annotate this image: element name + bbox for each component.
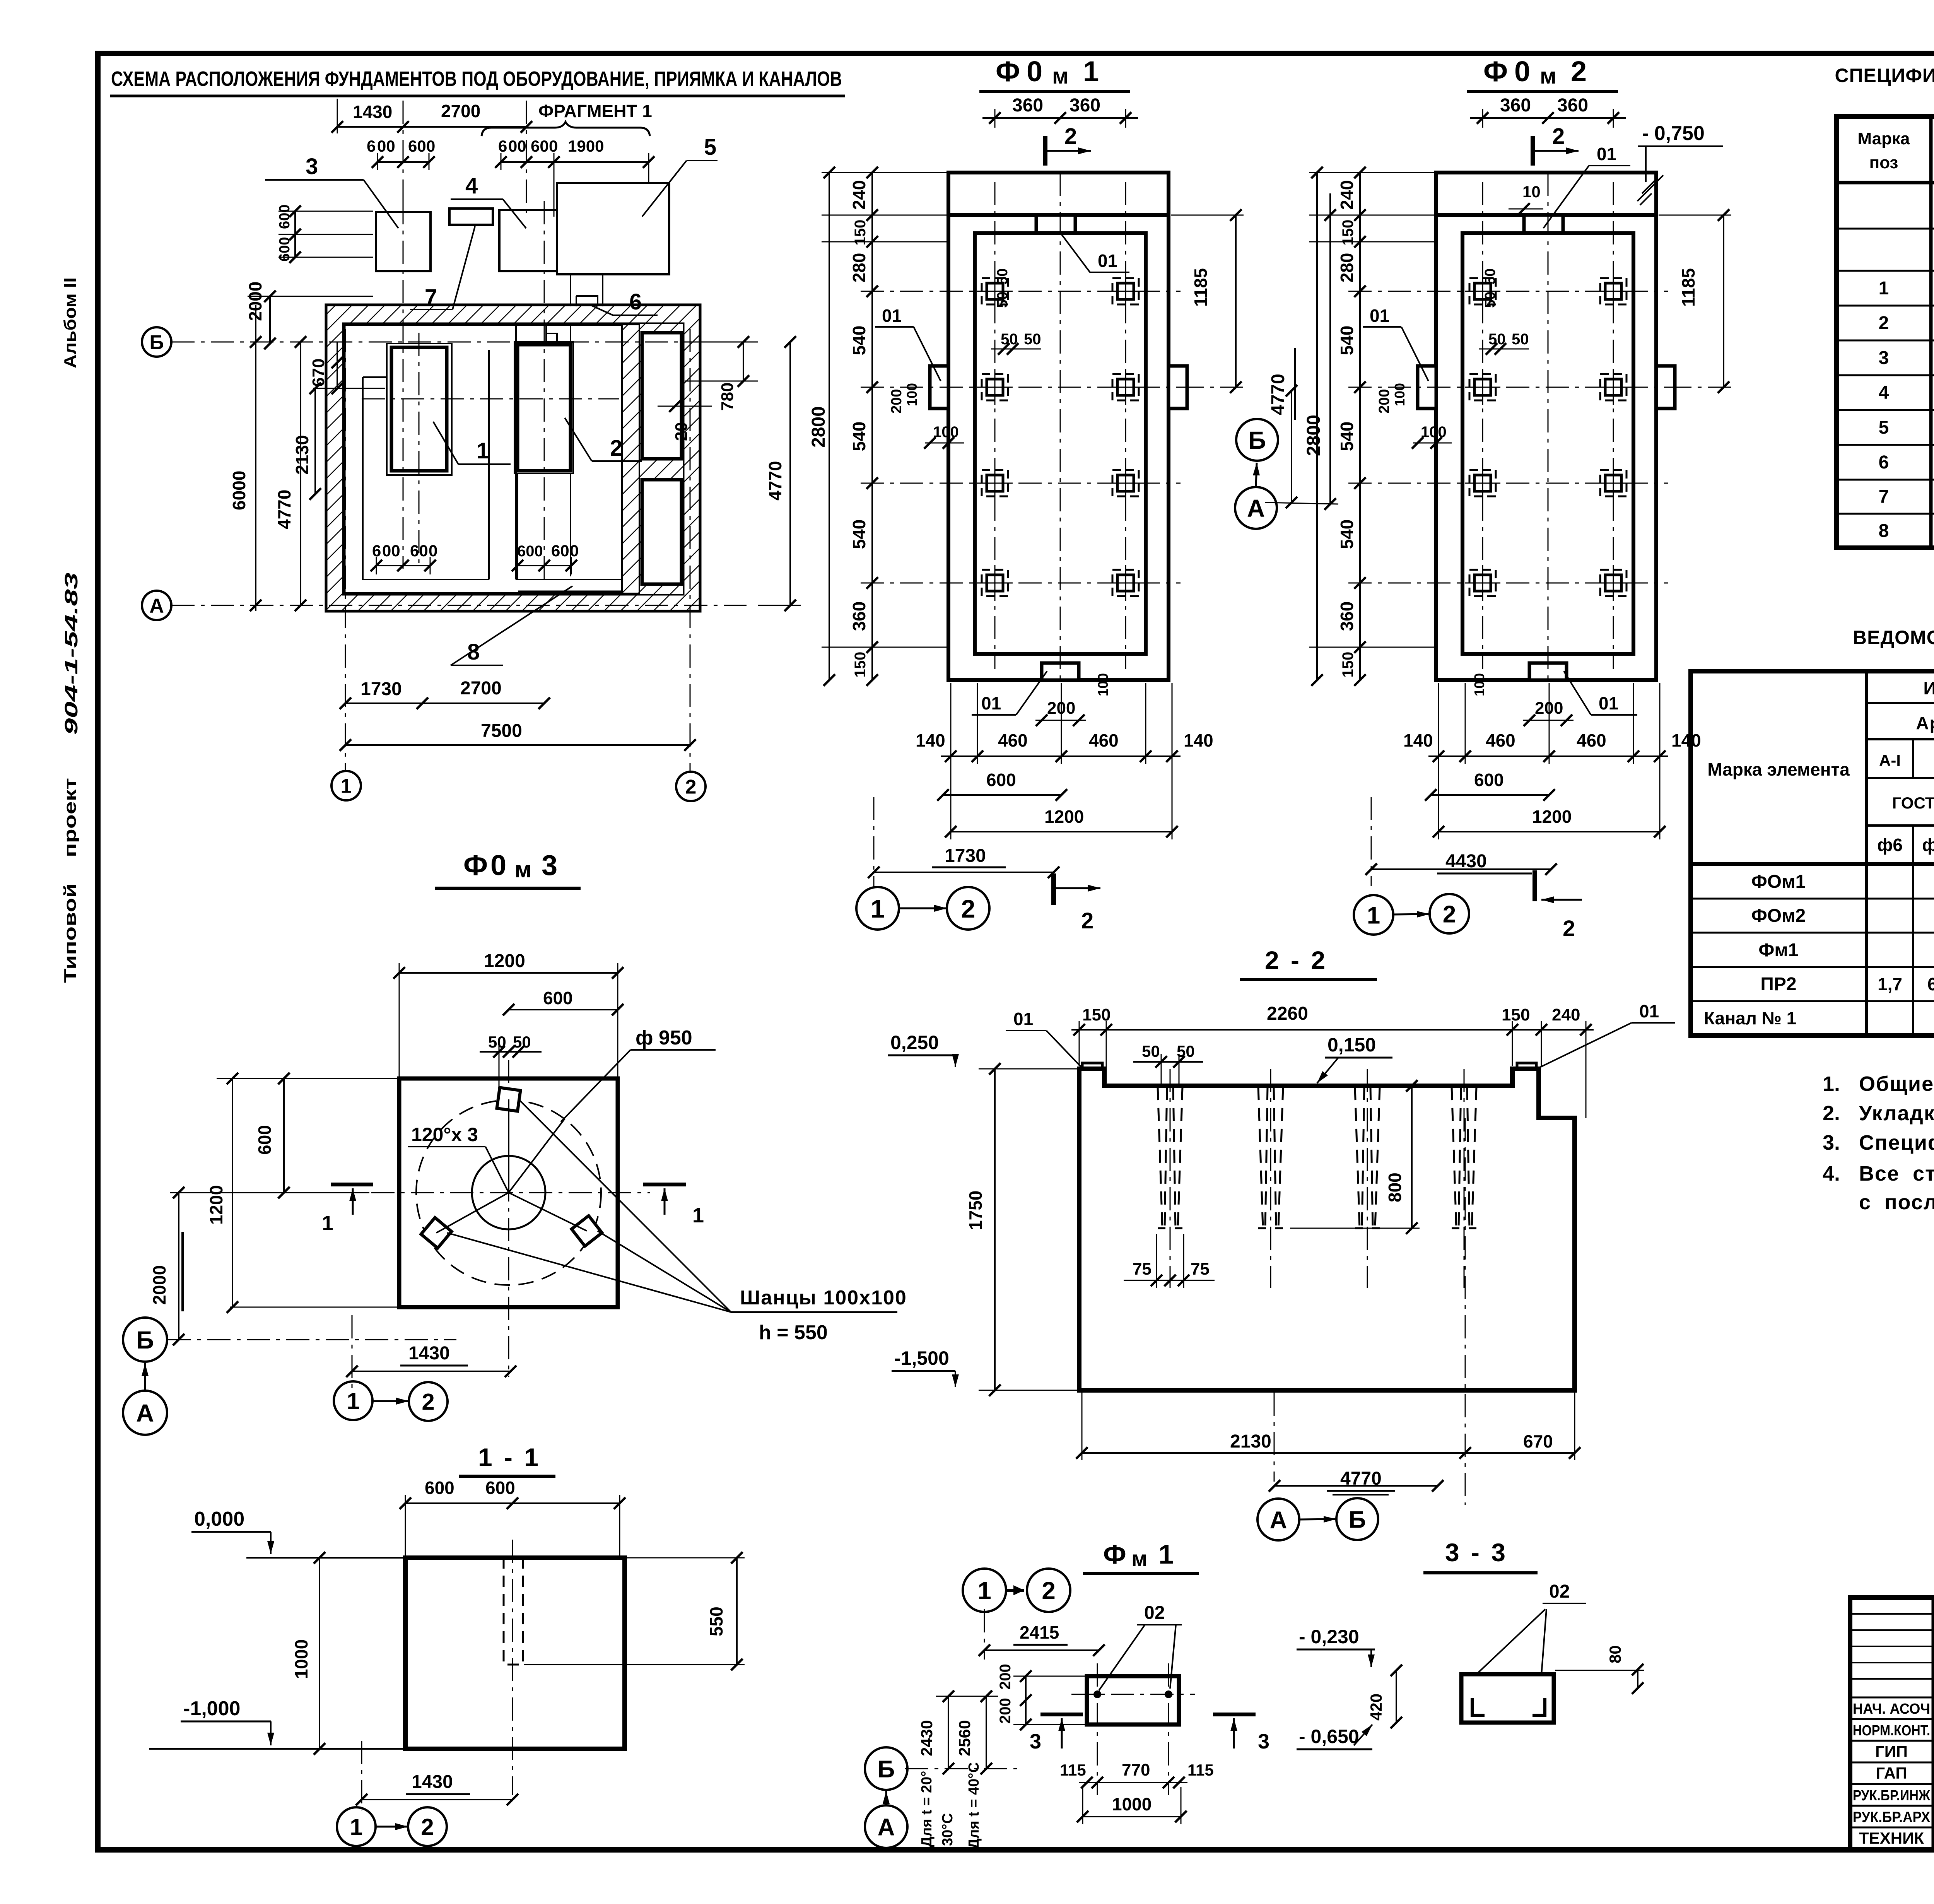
svg-text:50: 50 <box>1512 331 1529 348</box>
svg-text:600: 600 <box>986 770 1016 790</box>
svg-text:Б: Б <box>136 1326 154 1354</box>
top notch 01 <box>1036 215 1075 233</box>
svg-text:3: 3 <box>1030 1730 1041 1753</box>
svg-text:460: 460 <box>1089 730 1119 750</box>
svg-text:4.: 4. <box>1823 1162 1840 1185</box>
svg-text:540: 540 <box>1337 520 1357 549</box>
svg-text:Ф: Ф <box>1483 55 1508 87</box>
svg-text:с последующим покрытием эма: с последующим покрытием эмалью ХВ-124 ( … <box>1859 1191 1934 1214</box>
embedded plates 01 <box>1082 1063 1102 1069</box>
svg-text:РУК.БР.АРХ: РУК.БР.АРХ <box>1853 1809 1931 1825</box>
svg-text:3: 3 <box>306 154 318 179</box>
svg-text:540: 540 <box>1337 422 1357 451</box>
svg-text:ФОм1: ФОм1 <box>1751 872 1806 892</box>
svg-text:50: 50 <box>994 292 1011 308</box>
svg-text:1: 1 <box>347 1388 359 1414</box>
svg-text:01: 01 <box>1098 251 1117 271</box>
svg-text:1,7: 1,7 <box>1878 974 1902 994</box>
svg-text:360: 360 <box>1557 95 1588 116</box>
svg-text:140: 140 <box>916 730 945 750</box>
svg-text:670: 670 <box>309 359 328 387</box>
svg-text:Б: Б <box>878 1756 895 1783</box>
svg-text:СХЕМА РАСПОЛОЖЕНИЯ ФУНДАМЕНТОВ: СХЕМА РАСПОЛОЖЕНИЯ ФУНДАМЕНТОВ ПОД ОБОРУ… <box>111 67 842 91</box>
axis 1 vertical <box>345 329 346 772</box>
svg-text:5: 5 <box>704 135 716 160</box>
svg-text:2: 2 <box>1443 901 1456 928</box>
svg-text:Ф: Ф <box>1103 1539 1126 1569</box>
main title block <box>1850 1598 1934 1850</box>
svg-text:3 - 3: 3 - 3 <box>1445 1538 1508 1567</box>
svg-text:РУК.БР.ИНЖ: РУК.БР.ИНЖ <box>1853 1788 1931 1804</box>
foundation 2 (pos.2) <box>518 345 571 471</box>
svg-text:1000: 1000 <box>1112 1794 1152 1814</box>
svg-text:460: 460 <box>1486 730 1515 750</box>
ФОм1 inner contour <box>975 233 1146 654</box>
niche bottom-right <box>642 480 682 584</box>
axis circle Б (plan) <box>142 327 171 357</box>
svg-text:600: 600 <box>543 988 573 1008</box>
side notch left <box>930 366 948 408</box>
svg-text:670: 670 <box>1523 1431 1553 1451</box>
equipment rect pos.4 <box>499 210 557 271</box>
svg-text:01: 01 <box>1597 144 1616 164</box>
svg-text:Канал № 1: Канал № 1 <box>1704 1008 1796 1028</box>
centrelines <box>508 1060 509 1377</box>
svg-text:50: 50 <box>1142 1042 1160 1060</box>
svg-text:ГОСТ 5781-82: ГОСТ 5781-82 <box>1892 794 1934 812</box>
svg-text:м: м <box>514 856 531 882</box>
svg-text:h = 550: h = 550 <box>759 1321 828 1344</box>
side notch right <box>1169 366 1187 408</box>
svg-text:Арматура класса: Арматура класса <box>1916 713 1934 733</box>
axis circles А Б <box>1257 1499 1299 1540</box>
FM1 rect <box>1087 1676 1179 1725</box>
svg-text:Ф: Ф <box>463 849 488 881</box>
svg-text:Все стальные конструкции по: Все стальные конструкции покрыть 2 слоям… <box>1859 1162 1934 1185</box>
svg-text:3: 3 <box>542 849 557 881</box>
svg-text:НОРМ.КОНТ.: НОРМ.КОНТ. <box>1853 1723 1930 1739</box>
axis circles 1 2 <box>963 1569 1006 1612</box>
svg-text:1200: 1200 <box>1532 807 1572 827</box>
svg-text:м: м <box>1131 1546 1147 1571</box>
axis 2 vertical <box>690 329 691 772</box>
svg-text:240: 240 <box>849 180 869 210</box>
svg-text:100: 100 <box>1095 673 1111 696</box>
svg-text:150: 150 <box>1339 652 1357 678</box>
ФОм1 outer contour <box>948 173 1169 680</box>
section marks 1-1 <box>331 1183 373 1186</box>
bolt group at 3785 <box>1452 1087 1461 1228</box>
svg-text:А-I: А-I <box>1879 751 1901 769</box>
svg-text:8: 8 <box>467 639 480 665</box>
bolts <box>1093 1690 1101 1698</box>
svg-text:360: 360 <box>1500 95 1531 116</box>
svg-text:4770: 4770 <box>274 490 294 529</box>
svg-text:1430: 1430 <box>353 102 392 122</box>
svg-text:ПР2: ПР2 <box>1760 974 1796 995</box>
svg-text:75: 75 <box>1191 1260 1210 1278</box>
svg-text:360: 360 <box>1012 95 1043 116</box>
svg-text:50: 50 <box>1024 331 1041 348</box>
svg-text:4: 4 <box>1879 383 1889 403</box>
radial lines <box>436 1193 509 1233</box>
axis circles 1 2 <box>1354 895 1393 935</box>
svg-text:Марка элемента: Марка элемента <box>1707 759 1850 779</box>
svg-text:02: 02 <box>1549 1581 1570 1602</box>
svg-text:2: 2 <box>1081 908 1093 933</box>
svg-text:Спецификацию к фундаментам: Спецификацию к фундаментам смотрите на л… <box>1859 1131 1934 1154</box>
anchor bolts <box>1465 273 1500 309</box>
svg-text:0: 0 <box>426 137 435 155</box>
svg-text:30°С: 30°С <box>940 1813 956 1846</box>
duct from 5 to wall (pos.6) <box>571 274 603 306</box>
bolt top <box>497 1088 521 1111</box>
angle brackets <box>1472 1698 1485 1715</box>
svg-text:20: 20 <box>672 422 691 441</box>
equipment rect pos.3 <box>376 212 431 271</box>
pit outline <box>1079 1069 1575 1390</box>
svg-text:м: м <box>1540 63 1556 89</box>
svg-text:600: 600 <box>485 1478 515 1498</box>
svg-text:0: 0 <box>490 849 506 881</box>
svg-text:800: 800 <box>1385 1172 1405 1202</box>
svg-text:0,150: 0,150 <box>1327 1034 1376 1056</box>
svg-text:80: 80 <box>1606 1645 1624 1663</box>
bolt group at 3535 <box>1355 1087 1364 1228</box>
axis circle 2 (plan) <box>676 772 706 801</box>
axis circles Б А <box>865 1747 907 1790</box>
dashed slot <box>504 1558 523 1665</box>
svg-text:1750: 1750 <box>965 1191 986 1230</box>
svg-text:ФРАГМЕНТ 1: ФРАГМЕНТ 1 <box>538 101 652 121</box>
svg-text:460: 460 <box>1577 730 1606 750</box>
svg-text:2: 2 <box>1879 313 1889 333</box>
svg-text:100: 100 <box>904 383 920 406</box>
svg-text:540: 540 <box>849 520 869 549</box>
svg-text:Марка: Марка <box>1857 129 1910 148</box>
svg-text:Типовой проект: Типовой проект <box>61 778 80 983</box>
svg-text:Б: Б <box>1349 1506 1366 1533</box>
section marks 3 <box>1040 1713 1083 1716</box>
svg-text:А: А <box>1270 1507 1287 1533</box>
svg-text:НАЧ. АСОЧ: НАЧ. АСОЧ <box>1853 1701 1930 1717</box>
svg-text:СПЕЦИФИКАЦИЯ ЭЛЕМЕНТОВ К СХЕ: СПЕЦИФИКАЦИЯ ЭЛЕМЕНТОВ К СХЕМЕ РАСПОЛОЖЕ… <box>1835 65 1934 86</box>
svg-text:1: 1 <box>692 1204 704 1227</box>
svg-text:600: 600 <box>1474 770 1504 790</box>
top notch 01 <box>1524 215 1563 233</box>
dim 1185 <box>1723 215 1724 387</box>
svg-text:А: А <box>136 1399 154 1427</box>
svg-text:ГАП: ГАП <box>1876 1764 1907 1782</box>
svg-text:1200: 1200 <box>206 1185 226 1225</box>
svg-text:60: 60 <box>408 137 426 155</box>
3-3 rect <box>1461 1674 1554 1723</box>
svg-text:2: 2 <box>1571 55 1587 87</box>
svg-text:2560: 2560 <box>955 1720 974 1756</box>
svg-text:1: 1 <box>350 1814 362 1840</box>
svg-text:140: 140 <box>1671 730 1701 750</box>
svg-text:Фм1: Фм1 <box>1758 940 1798 961</box>
centrelines <box>1548 173 1549 680</box>
svg-text:Б: Б <box>149 332 164 354</box>
canal 8 at bottom <box>516 579 622 580</box>
svg-text:Для t = 40°С: Для t = 40°С <box>966 1762 982 1849</box>
svg-text:150: 150 <box>852 652 869 678</box>
svg-text:280: 280 <box>849 253 869 283</box>
plan view walls <box>326 305 700 611</box>
svg-text:Общие указания о грунтах см: Общие указания о грунтах смотрите на лис… <box>1859 1072 1934 1096</box>
axis circle 1 (plan) <box>331 771 361 800</box>
svg-text:240: 240 <box>1552 1005 1580 1024</box>
svg-text:360: 360 <box>1337 602 1357 631</box>
svg-text:4770: 4770 <box>1268 374 1288 415</box>
svg-text:-1,000: -1,000 <box>183 1697 240 1720</box>
svg-text:60: 60 <box>531 137 549 155</box>
axis circle А (plan) <box>142 591 171 620</box>
section mark 2 bottom <box>1533 870 1537 901</box>
svg-text:150: 150 <box>1502 1005 1530 1024</box>
equipment rect pos.5 <box>557 183 669 274</box>
svg-text:2130: 2130 <box>1230 1431 1271 1452</box>
svg-text:А: А <box>878 1814 895 1841</box>
axis circles 1 2 <box>337 1807 376 1846</box>
svg-text:75: 75 <box>1133 1260 1152 1278</box>
svg-text:2.: 2. <box>1823 1102 1840 1125</box>
svg-text:1200: 1200 <box>484 951 525 971</box>
svg-text:- 0,650: - 0,650 <box>1299 1726 1359 1747</box>
svg-text:0,000: 0,000 <box>194 1508 244 1530</box>
svg-text:1: 1 <box>1367 902 1380 929</box>
bolt circle dashed <box>416 1100 601 1285</box>
svg-text:115: 115 <box>1060 1761 1086 1779</box>
svg-text:460: 460 <box>998 730 1028 750</box>
partition wall <box>622 324 640 594</box>
side notch right <box>1656 366 1675 408</box>
svg-text:0: 0 <box>1514 55 1530 87</box>
svg-text:1: 1 <box>1879 278 1889 299</box>
svg-text:ФОм2: ФОм2 <box>1751 906 1806 926</box>
section mark 2 bottom <box>1051 873 1056 905</box>
svg-text:6,5: 6,5 <box>1927 974 1934 994</box>
svg-text:01: 01 <box>1639 1001 1659 1021</box>
svg-text:240: 240 <box>1337 180 1357 210</box>
svg-text:540: 540 <box>849 422 869 451</box>
svg-text:60: 60 <box>551 542 569 560</box>
svg-text:6: 6 <box>1879 452 1889 473</box>
svg-text:ф 950: ф 950 <box>636 1027 692 1049</box>
svg-text:А: А <box>149 595 164 617</box>
axis line А <box>171 605 747 606</box>
svg-text:1: 1 <box>871 894 885 923</box>
svg-text:2800: 2800 <box>808 406 829 448</box>
pit outline around foundation 1 <box>363 350 489 579</box>
steel consumption table <box>1691 671 1934 1036</box>
svg-text:2: 2 <box>1552 124 1565 149</box>
FOM3 axis circles Б А <box>123 1318 167 1362</box>
svg-text:360: 360 <box>1070 95 1100 116</box>
svg-text:2700: 2700 <box>441 101 480 121</box>
svg-text:6: 6 <box>367 137 376 155</box>
bottom notch 01 <box>1042 663 1079 680</box>
svg-text:780: 780 <box>718 383 737 411</box>
svg-text:600: 600 <box>425 1478 454 1498</box>
svg-text:1: 1 <box>1158 1539 1174 1569</box>
section mark 2 (top) <box>1043 136 1047 166</box>
svg-text:3.: 3. <box>1823 1131 1840 1154</box>
svg-text:1185: 1185 <box>1678 268 1698 307</box>
svg-text:60: 60 <box>410 542 428 560</box>
svg-text:1: 1 <box>977 1577 991 1605</box>
svg-text:1730: 1730 <box>360 679 402 699</box>
svg-text:ТЕХНИК: ТЕХНИК <box>1859 1829 1924 1847</box>
svg-text:1 - 1: 1 - 1 <box>478 1443 541 1472</box>
svg-text:2700: 2700 <box>460 678 502 699</box>
svg-text:- 0,230: - 0,230 <box>1299 1626 1359 1648</box>
svg-text:140: 140 <box>1184 730 1213 750</box>
svg-text:1730: 1730 <box>945 846 986 866</box>
svg-text:5: 5 <box>1879 417 1889 438</box>
svg-text:2800: 2800 <box>1304 415 1324 456</box>
svg-text:Альбом II: Альбом II <box>61 277 80 368</box>
svg-text:Ф: Ф <box>996 55 1020 87</box>
svg-text:01: 01 <box>981 693 1001 713</box>
svg-text:Б: Б <box>1248 426 1266 454</box>
svg-text:120°х 3: 120°х 3 <box>411 1124 478 1145</box>
svg-text:100: 100 <box>1392 383 1408 406</box>
extension line at square bottom <box>230 1307 398 1308</box>
ФОм2 outer contour <box>1436 173 1656 680</box>
svg-text:00: 00 <box>382 542 400 560</box>
axis circles 1 2 <box>856 887 899 930</box>
svg-text:2415: 2415 <box>1020 1622 1059 1642</box>
svg-text:7500: 7500 <box>481 721 522 741</box>
inner circle <box>472 1156 545 1229</box>
svg-text:2: 2 <box>422 1389 434 1415</box>
svg-text:550: 550 <box>706 1607 726 1636</box>
svg-text:50: 50 <box>1482 268 1498 285</box>
svg-text:2: 2 <box>1064 124 1077 149</box>
axis circles 1 2 <box>334 1381 372 1420</box>
equipment rect pos.7 <box>449 209 493 225</box>
left dim stack <box>871 173 873 680</box>
side notch left <box>1418 366 1436 408</box>
dim 1185 <box>1235 215 1237 387</box>
svg-text:1: 1 <box>477 438 489 463</box>
bolt lower-right <box>572 1216 602 1246</box>
svg-text:904-1-54.83: 904-1-54.83 <box>61 572 81 735</box>
svg-text:3: 3 <box>1258 1730 1269 1753</box>
left dim stack <box>1359 173 1361 680</box>
svg-text:ф12: ф12 <box>1922 835 1934 855</box>
svg-text:2000: 2000 <box>149 1265 169 1305</box>
svg-text:6: 6 <box>629 289 642 314</box>
svg-text:200: 200 <box>997 1698 1014 1724</box>
svg-text:0: 0 <box>549 137 558 155</box>
svg-text:600: 600 <box>517 543 543 560</box>
svg-text:01: 01 <box>1013 1009 1033 1029</box>
svg-text:1200: 1200 <box>1044 807 1084 827</box>
bolt group at 3025 <box>1158 1087 1167 1228</box>
svg-text:поз: поз <box>1869 153 1898 172</box>
svg-text:0,250: 0,250 <box>890 1032 939 1053</box>
niche top-right <box>642 333 682 459</box>
svg-text:6000: 6000 <box>229 471 249 510</box>
centreline <box>512 1540 513 1795</box>
svg-text:2130: 2130 <box>292 435 312 475</box>
svg-text:1430: 1430 <box>412 1772 453 1792</box>
svg-text:2260: 2260 <box>1267 1003 1308 1024</box>
svg-text:2: 2 <box>610 436 622 461</box>
svg-text:0: 0 <box>1027 55 1042 87</box>
svg-text:1.: 1. <box>1823 1072 1840 1096</box>
svg-text:м: м <box>1052 63 1069 89</box>
svg-text:-1,500: -1,500 <box>894 1347 949 1369</box>
centrelines <box>1060 173 1061 680</box>
svg-text:2: 2 <box>1563 916 1575 941</box>
svg-text:7: 7 <box>1879 487 1889 507</box>
svg-text:А: А <box>1247 494 1265 522</box>
bolt lower-left <box>421 1218 452 1248</box>
svg-text:2 - 2: 2 - 2 <box>1265 946 1327 974</box>
svg-text:50: 50 <box>1482 292 1498 308</box>
svg-text:Шанцы 100х100: Шанцы 100х100 <box>740 1287 907 1309</box>
svg-text:2430: 2430 <box>917 1720 936 1756</box>
svg-text:- 0,750: - 0,750 <box>1642 122 1705 145</box>
svg-text:3: 3 <box>1879 348 1889 368</box>
inter-view axis circles Б/А and dims 4770/2800 <box>1236 419 1278 461</box>
svg-text:0: 0 <box>570 542 579 560</box>
svg-text:1430: 1430 <box>408 1343 450 1364</box>
svg-text:00: 00 <box>508 137 526 155</box>
svg-text:600: 600 <box>255 1125 275 1155</box>
svg-text:1900: 1900 <box>568 137 604 155</box>
svg-text:200: 200 <box>997 1664 1014 1690</box>
centrelines plan <box>403 201 404 569</box>
svg-text:Изделия арматурные: Изделия арматурные <box>1923 678 1934 698</box>
svg-text:4770: 4770 <box>765 461 785 501</box>
svg-text:200: 200 <box>1376 389 1392 414</box>
svg-text:4: 4 <box>465 173 478 198</box>
section mark 2 (top) <box>1531 136 1535 166</box>
canal 6 strip <box>488 350 490 579</box>
svg-text:7: 7 <box>425 285 437 310</box>
svg-text:00: 00 <box>377 137 395 155</box>
ФОм2 inner contour <box>1462 233 1633 654</box>
svg-text:2: 2 <box>1042 1577 1056 1605</box>
svg-text:02: 02 <box>1144 1603 1165 1623</box>
svg-text:100: 100 <box>1471 673 1487 696</box>
anchor bolts <box>977 273 1013 309</box>
svg-text:200: 200 <box>888 389 905 414</box>
FOM3 square <box>399 1078 618 1307</box>
bolt group at 3285 <box>1258 1087 1268 1228</box>
svg-text:ф6: ф6 <box>1877 835 1903 855</box>
svg-text:1: 1 <box>322 1212 333 1235</box>
svg-text:8: 8 <box>1879 521 1889 541</box>
svg-text:2: 2 <box>685 776 697 798</box>
svg-text:540: 540 <box>1337 326 1357 356</box>
axis line Б <box>171 342 747 343</box>
svg-text:6: 6 <box>372 542 381 560</box>
svg-text:ГИП: ГИП <box>1875 1742 1908 1760</box>
svg-text:360: 360 <box>849 602 869 631</box>
svg-text:0: 0 <box>429 542 437 560</box>
svg-text:140: 140 <box>1403 730 1433 750</box>
specification table <box>1837 116 1934 548</box>
bottom notch 01 <box>1529 663 1567 680</box>
svg-text:6: 6 <box>498 137 507 155</box>
svg-text:Укладку бетона производить: Укладку бетона производить с вибрировани… <box>1859 1102 1934 1125</box>
